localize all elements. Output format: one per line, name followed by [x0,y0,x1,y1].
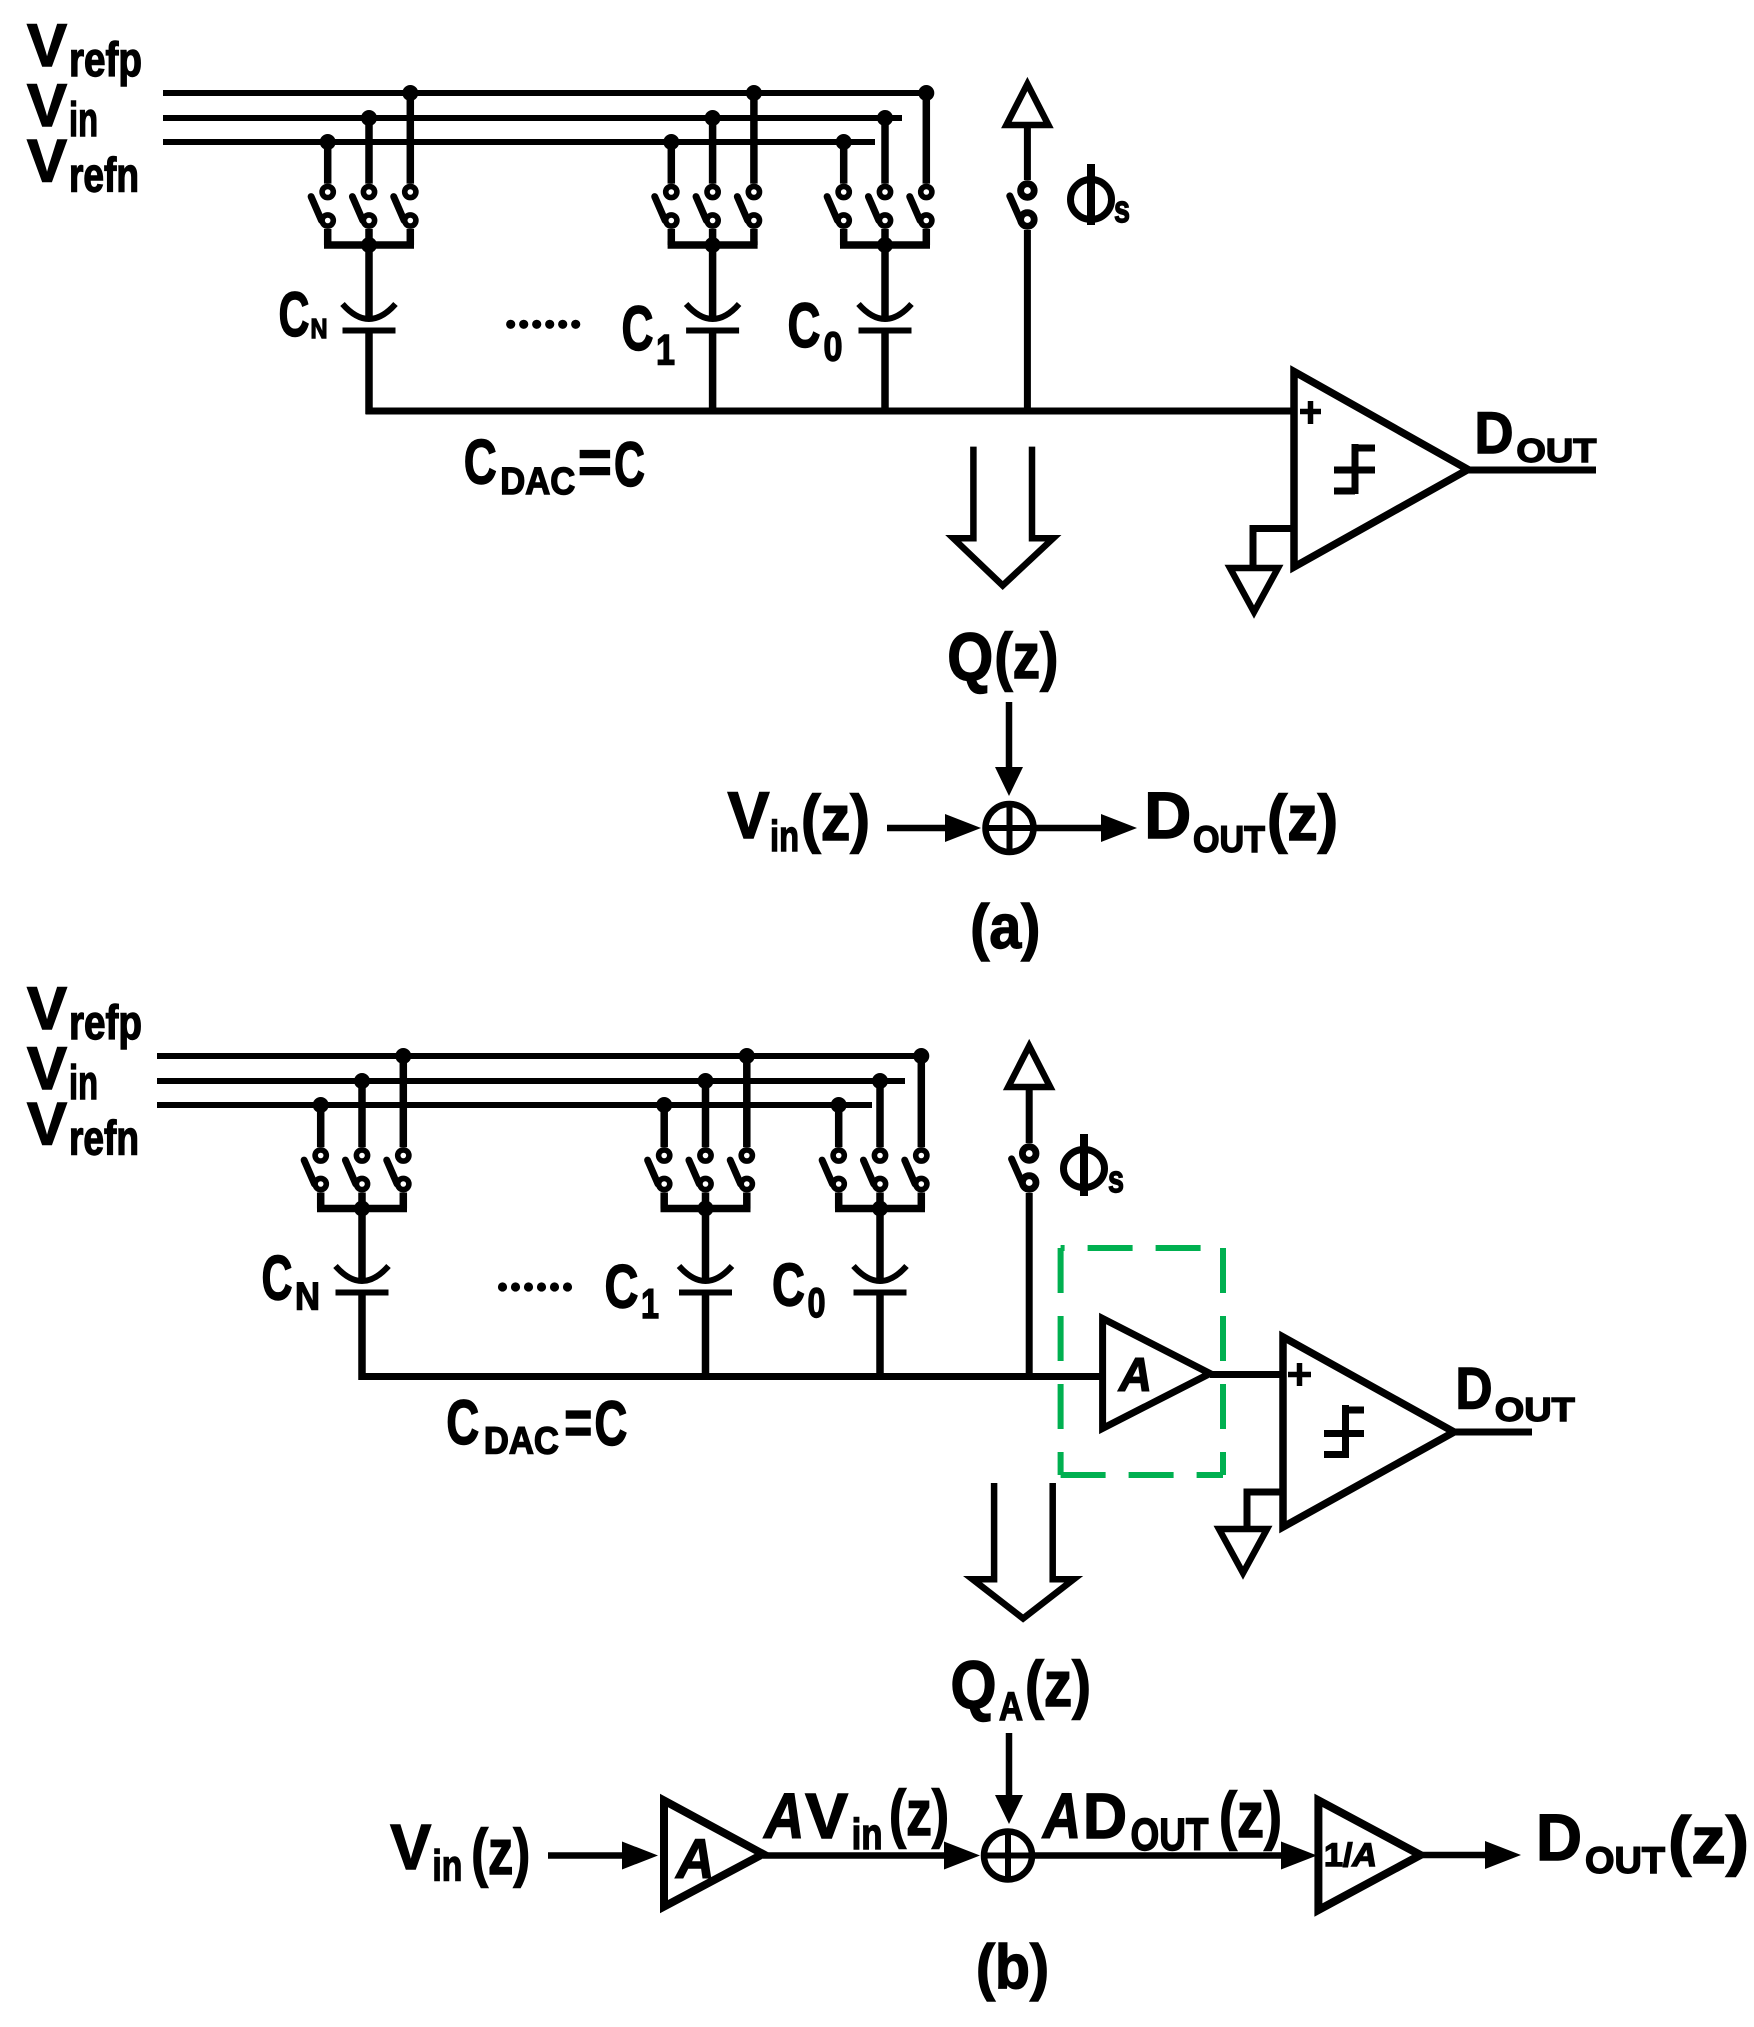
wire S_N (a) Vin stub [365,118,373,184]
svg-text:(z): (z) [889,1777,949,1849]
svg-text:refn: refn [69,1113,139,1166]
svg-text:0: 0 [824,324,843,370]
svg-text:OUT: OUT [1193,819,1265,860]
svg-text:refp: refp [69,997,142,1050]
capacitor C_0 (b) [854,1266,907,1293]
switch S_0 (a) refp [910,186,932,226]
switch phi_s (a) [1010,184,1034,227]
clocked comparator symbol (a) [1352,444,1359,494]
wire S_0 (a) Vin stub [881,118,889,184]
wire C1 bottom (a) [709,331,717,415]
svg-text:D: D [1456,1357,1493,1422]
svg-text:C: C [772,1252,805,1319]
node S_1 (a) refp tap [746,85,762,101]
wire S_N (a) left drop [324,229,332,245]
switch S_0 (a) refn [827,186,849,226]
svg-text:OUT: OUT [1585,1840,1665,1881]
svg-text:(z): (z) [471,1816,530,1888]
svg-text:(a): (a) [970,893,1040,962]
svg-text:C: C [464,428,497,498]
wire S_0 (b) refp stub [918,1056,926,1147]
wire S_0 (a) mid drop [881,229,889,245]
wire Vin(z) arrow (b) [548,1852,622,1859]
arrow phi_s sample (a) [1006,84,1048,125]
node S_1 (b) Vin tap [698,1073,714,1089]
label phi_s (b) [1064,1150,1105,1188]
wire S_N (b) left drop [317,1193,325,1209]
wire S_N (b) refp stub [400,1056,408,1147]
wire S_N (a) right drop [407,229,415,245]
svg-text:A: A [999,1685,1023,1729]
svg-text:A: A [675,1827,715,1890]
switch S_1 (b) Vin [689,1150,711,1190]
svg-text:(z): (z) [801,782,870,854]
wire S_0 (b) merge bar [835,1205,925,1213]
amplifier A (b circuit) [1103,1319,1210,1429]
svg-text:C: C [605,1253,639,1321]
switch S_1 (a) refn [655,186,677,226]
wire CN top (b) [358,1209,366,1281]
wire S_N (b) refn stub [317,1105,325,1147]
switch S_N (b) refp [387,1150,409,1190]
switch S_N (b) refn [304,1150,326,1190]
wire Vrefp bus (a) [163,90,926,96]
node S_0 (b) merge junction [872,1201,888,1217]
arrow phi_s sample (b) [1008,1046,1050,1087]
svg-text:OUT: OUT [1516,432,1596,469]
switch S_0 (b) Vin [863,1150,885,1190]
node S_0 (b) Vin tap [872,1073,888,1089]
wire S_1 (b) left drop [660,1193,668,1209]
svg-text:C: C [788,291,821,361]
node S_1 (b) refp tap [739,1048,755,1064]
svg-text:(z): (z) [1219,1779,1282,1851]
node S_0 (a) Vin tap [877,110,893,126]
wire S_0 (a) left drop [840,229,848,245]
wire S_1 (b) refp stub [743,1056,751,1147]
wire S_1 (a) merge bar [668,241,758,249]
svg-text:Q: Q [947,619,993,695]
switch S_0 (b) refn [822,1150,844,1190]
pin + (b) [1288,1372,1311,1378]
svg-text:V: V [27,128,67,195]
wire C1 top (a) [709,245,717,318]
node S_N (a) refn tap [320,134,336,150]
svg-text:Q: Q [951,1647,997,1723]
wire inverting input (a) [1253,525,1295,532]
svg-text:A: A [1118,1348,1152,1401]
svg-text:A: A [763,1780,805,1852]
preamp highlight box (green dashed) [1061,1245,1223,1251]
svg-text:OUT: OUT [1495,1391,1575,1428]
switch S_1 (a) Vin [696,186,718,226]
svg-text:1/A: 1/A [1324,1837,1377,1873]
wire Vin bus (b) [157,1078,905,1084]
wire Vrefn bus (b) [157,1102,872,1108]
adder sum node (a) [986,804,1034,852]
wire S_1 (b) mid drop [702,1193,710,1209]
wire S_1 (a) mid drop [709,229,717,245]
node S_0 (a) refp tap [918,85,934,101]
switch S_N (a) Vin [352,186,374,226]
svg-text:N: N [311,313,328,344]
wire C0 top (b) [876,1209,884,1281]
wire Q_A(z) arrow [1006,1733,1013,1796]
svg-text:1: 1 [656,327,675,375]
wire CN bottom (b) [358,1293,366,1381]
svg-text:(z): (z) [1025,1648,1091,1720]
node S_N (a) merge junction [361,237,377,253]
wire S_1 (a) refn stub [668,142,676,184]
adder sum node (b) [984,1832,1032,1880]
comparator U1 (b) [1283,1337,1454,1527]
wire S_1 (b) right drop [743,1193,751,1209]
wire 1/A out (b) [1421,1852,1486,1859]
capacitor C_N (b) [336,1266,389,1293]
svg-text:N: N [295,1276,320,1319]
wire Dout (b) [1454,1429,1532,1436]
svg-text:V: V [27,12,67,79]
node S_N (b) merge junction [354,1201,370,1217]
svg-text:V: V [27,1091,67,1158]
svg-text:refp: refp [69,34,142,87]
svg-text:s: s [1108,1159,1124,1201]
switch S_1 (b) refp [730,1150,752,1190]
capacitor C_1 (a) [686,304,739,331]
capacitor C_N (a) [343,304,396,331]
switch S_0 (a) Vin [868,186,890,226]
svg-text:DAC: DAC [500,461,575,503]
wire S_0 (b) mid drop [876,1193,884,1209]
node S_1 (b) refn tap [656,1097,672,1113]
wire S_1 (b) Vin stub [702,1081,710,1147]
wire S_N (b) Vin stub [358,1081,366,1147]
node S_0 (b) refp tap [913,1048,929,1064]
wire C1 bottom (b) [702,1293,710,1381]
svg-text:in: in [69,94,98,147]
wire summing rail (b) [359,1373,1104,1380]
wire Vin bus (a) [163,115,902,121]
svg-text:D: D [1083,1780,1127,1852]
arrow quantization-noise callout (b) [973,1483,1074,1619]
capacitor C_0 (a) [859,304,912,331]
svg-text:in: in [852,1810,883,1859]
wire S_N (a) mid drop [365,229,373,245]
switch S_0 (b) refp [905,1150,927,1190]
node S_N (a) refp tap [402,85,418,101]
wire CN top (a) [365,245,373,318]
svg-text:C: C [622,294,654,364]
pin + (a) [1300,409,1321,415]
wire S_N (b) right drop [400,1193,408,1209]
wire inverting input (b) [1247,1489,1284,1496]
arrow quantization-noise callout (a) [953,447,1053,586]
switch S_N (b) Vin [345,1150,367,1190]
label phi_s (a) [1071,180,1112,220]
svg-text:(z): (z) [1668,1803,1749,1877]
wire S_N (b) mid drop [358,1193,366,1209]
svg-text:V: V [728,778,770,852]
wire S_1 (a) refp stub [750,93,758,184]
node S_N (b) Vin tap [354,1073,370,1089]
node S_1 (a) merge junction [705,237,721,253]
node S_0 (a) refn tap [836,134,852,150]
wire S_1 (a) Vin stub [709,118,717,184]
node S_1 (a) Vin tap [705,110,721,126]
switch S_N (a) refp [394,186,416,226]
svg-text:V: V [805,1780,848,1852]
svg-text:C: C [594,1389,627,1459]
wire S_0 (a) refn stub [840,142,848,184]
node S_N (a) Vin tap [361,110,377,126]
svg-text:refn: refn [69,150,139,203]
svg-text:DAC: DAC [484,1421,559,1463]
wire S_0 (a) merge bar [840,241,930,249]
svg-text:C: C [446,1388,479,1458]
svg-text:D: D [1536,1800,1582,1874]
wire S_1 (b) refn stub [660,1105,668,1147]
wire CN bottom (a) [365,331,373,415]
node S_N (b) refn tap [313,1097,329,1113]
wire phi_s top (a) [1024,125,1031,180]
svg-text:=: = [578,428,612,498]
wire Dout(z) arrow (a) [1037,825,1103,832]
node S_0 (a) merge junction [877,237,893,253]
svg-text:in: in [69,1057,98,1110]
svg-text:in: in [770,812,799,861]
svg-text:(z): (z) [1267,782,1338,854]
wire S_1 (a) right drop [750,229,758,245]
svg-text:(z): (z) [994,620,1058,692]
wire S_N (a) refn stub [324,142,332,184]
node S_N (b) refp tap [395,1048,411,1064]
wire Vrefn bus (a) [163,139,875,145]
svg-text:0: 0 [808,1279,826,1326]
wire S_N (a) refp stub [407,93,415,184]
svg-text:V: V [390,1811,431,1883]
svg-text:C: C [262,1244,293,1314]
wire Dout (a) [1468,467,1596,474]
wire S_N (a) merge bar [324,241,414,249]
switch S_1 (a) refp [737,186,759,226]
node S_0 (b) refn tap [831,1097,847,1113]
ground (a) [1230,568,1278,612]
node S_1 (b) merge junction [698,1201,714,1217]
comparator U1 (a) [1294,372,1468,568]
ground (b) [1219,1529,1267,1573]
svg-text:V: V [27,975,67,1042]
switch S_N (a) refn [311,186,333,226]
wire S_0 (b) left drop [835,1193,843,1209]
svg-text:s: s [1114,189,1130,231]
wire Vrefp bus (b) [157,1053,922,1059]
wire C0 top (a) [881,245,889,318]
wire S_0 (b) refn stub [835,1105,843,1147]
switch S_1 (b) refn [648,1150,670,1190]
amplifier 1/A (b diagram) [1318,1800,1420,1910]
wire S_0 (b) Vin stub [876,1081,884,1147]
svg-text:C: C [279,280,310,350]
wire C0 bottom (a) [881,331,889,415]
ellipsis dots (b) [498,1282,507,1291]
amplifier A (b diagram) [664,1801,763,1907]
capacitor C_1 (b) [679,1266,732,1293]
wire phi_s top (b) [1026,1087,1033,1143]
wire Q(z) arrow [1006,702,1013,768]
wire Vin(z) arrow (a) [887,825,950,832]
wire S_1 (b) merge bar [661,1205,751,1213]
svg-text:D: D [1144,778,1191,852]
wire phi_s bottom (b) [1026,1193,1033,1377]
wire S_0 (a) right drop [923,229,931,245]
wire phi_s bottom (a) [1024,230,1031,411]
wire adder to 1/A (b) [1035,1852,1284,1859]
svg-text:(b): (b) [976,1933,1049,2002]
svg-text:D: D [1475,401,1514,466]
switch phi_s (b) [1012,1147,1036,1190]
wire C0 bottom (b) [876,1293,884,1381]
svg-text:A: A [1041,1780,1081,1852]
svg-text:1: 1 [641,1280,659,1327]
wire S_0 (a) refp stub [923,93,931,184]
clocked comparator symbol (b) [1342,1405,1349,1458]
node S_1 (a) refn tap [663,134,679,150]
wire C1 top (b) [702,1209,710,1281]
wire amp to comparator (b) [1210,1371,1288,1378]
svg-text:=: = [564,1388,592,1458]
wire S_N (b) merge bar [317,1205,407,1213]
wire S_1 (a) left drop [668,229,676,245]
ellipsis dots (a) [506,320,515,329]
svg-text:in: in [432,1842,462,1891]
svg-text:C: C [614,430,645,500]
wire amp to adder (b) [763,1852,944,1859]
wire S_0 (b) right drop [918,1193,926,1209]
wire summing rail (a) [366,408,1297,415]
